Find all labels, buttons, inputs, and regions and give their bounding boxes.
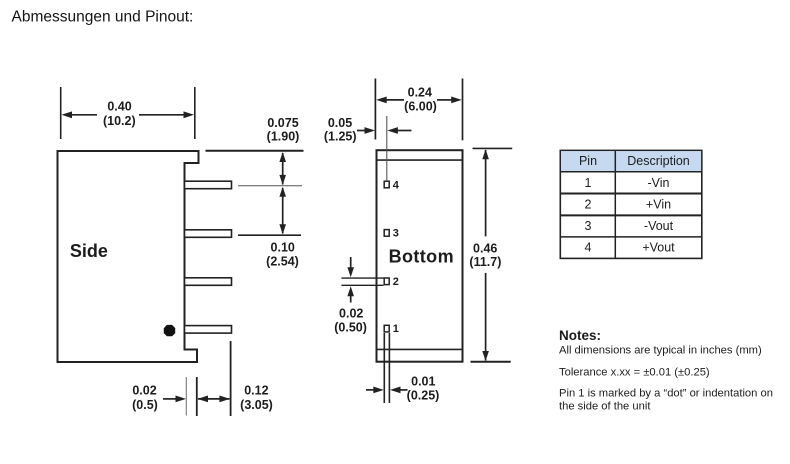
dim 0.46 top extension line — [473, 147, 513, 149]
svg-text:3: 3 — [585, 219, 592, 233]
svg-text:0.40: 0.40 — [107, 100, 131, 114]
svg-text:2: 2 — [585, 197, 592, 211]
svg-text:Pin 1 is marked by a “dot” or: Pin 1 is marked by a “dot” or indentatio… — [559, 388, 773, 400]
dim 0.05 right-pointing arrow — [357, 127, 375, 134]
dim 0.02 up arrow (bottom view) — [347, 286, 354, 302]
pad 1 left edge extension line — [383, 333, 385, 403]
pin 2 (side) — [185, 278, 232, 286]
pin table row line 2 — [560, 214, 702, 216]
extension line pin root (bottom of side view) — [185, 377, 187, 416]
pin table column divider — [614, 150, 616, 258]
svg-text:the side of the unit: the side of the unit — [559, 400, 651, 412]
svg-text:4: 4 — [585, 240, 592, 254]
pad 1 — [384, 325, 389, 332]
svg-text:0.075: 0.075 — [267, 116, 298, 130]
pin 3 (side) — [185, 230, 232, 238]
svg-text:All dimensions are typical in: All dimensions are typical in inches (mm… — [559, 344, 762, 356]
svg-text:-Vin: -Vin — [647, 176, 669, 190]
dim 0.01 left arrow — [366, 387, 384, 394]
svg-text:0.01: 0.01 — [411, 374, 435, 388]
svg-text:(2.54): (2.54) — [266, 254, 299, 268]
pad 2 leader line bottom — [341, 284, 383, 286]
dim 0.24 right extension line — [462, 79, 464, 141]
svg-text:(0.50): (0.50) — [334, 320, 367, 334]
pad 4 — [384, 181, 389, 188]
svg-text:Pin: Pin — [579, 154, 597, 168]
svg-text:1: 1 — [393, 323, 399, 335]
svg-text:(11.7): (11.7) — [469, 255, 501, 269]
svg-text:0.46: 0.46 — [473, 241, 497, 255]
pin 1 (side) — [185, 326, 232, 334]
svg-text:Tolerance x.xx = ±0.01 (±0.25): Tolerance x.xx = ±0.01 (±0.25) — [559, 366, 710, 378]
pad 3 — [384, 230, 389, 237]
svg-text:0.02: 0.02 — [132, 383, 156, 397]
side view body — [58, 151, 199, 362]
svg-text:(10.2): (10.2) — [103, 114, 136, 128]
svg-text:Abmessungen und Pinout:: Abmessungen und Pinout: — [12, 9, 194, 26]
svg-text:4: 4 — [393, 179, 400, 191]
svg-text:+Vout: +Vout — [642, 240, 675, 254]
pin table row line 1 — [560, 193, 702, 195]
svg-text:(1.90): (1.90) — [267, 130, 300, 144]
dim 0.10 arrow — [279, 187, 286, 234]
dim 0.075 arrow — [279, 152, 286, 185]
svg-text:(3.05): (3.05) — [240, 398, 273, 412]
svg-text:0.12: 0.12 — [244, 383, 268, 397]
dim 0.46 bottom extension line — [471, 361, 511, 363]
svg-text:1: 1 — [585, 176, 592, 190]
svg-text:Side: Side — [70, 241, 108, 261]
svg-text:(0.5): (0.5) — [132, 398, 158, 412]
svg-text:0.10: 0.10 — [271, 240, 295, 254]
pin 4 (side) — [185, 181, 232, 189]
svg-text:(1.25): (1.25) — [324, 130, 357, 144]
svg-text:2: 2 — [393, 276, 399, 288]
dim 0.05 left-pointing arrow — [387, 127, 411, 134]
pin column extension line — [386, 116, 388, 181]
svg-text:0.24: 0.24 — [408, 86, 432, 100]
dim 0.24 arrow — [376, 97, 462, 104]
dim 0.12 arrow — [198, 396, 230, 403]
dim 0.46 arrow — [482, 149, 489, 361]
svg-text:Description: Description — [627, 154, 690, 168]
pad 2 — [384, 278, 389, 285]
dim 0.40 left extension line — [60, 87, 62, 139]
pin table header underline — [560, 171, 702, 173]
extension line body step — [196, 377, 198, 416]
bottom view top band line — [377, 159, 462, 161]
dim 0.01 right arrow — [390, 387, 408, 394]
pin 4 extension line — [238, 185, 302, 187]
svg-text:3: 3 — [393, 228, 399, 240]
dim 0.24 left extension line — [374, 79, 376, 140]
pin table row line 3 — [560, 236, 702, 238]
extension line pin tip — [230, 341, 232, 416]
pin table header fill — [561, 151, 701, 171]
bottom view body — [377, 150, 463, 362]
dim 0.02 down arrow (bottom view) — [347, 257, 354, 277]
svg-text:(0.25): (0.25) — [407, 389, 440, 403]
bottom view bottom band line — [377, 348, 462, 350]
svg-text:(6.00): (6.00) — [404, 99, 437, 113]
pin 3 extension line — [238, 234, 301, 236]
dim 0.40 arrow line — [62, 111, 195, 118]
svg-text:Notes:: Notes: — [559, 328, 601, 343]
svg-text:0.05: 0.05 — [328, 116, 352, 130]
top surface extension line — [206, 150, 304, 152]
svg-text:0.02: 0.02 — [339, 306, 363, 320]
pin table outer border — [560, 150, 702, 258]
pin 1 dot marker — [164, 325, 175, 336]
pad 2 leader line top — [341, 277, 383, 279]
svg-text:Bottom: Bottom — [389, 246, 454, 266]
svg-text:+Vin: +Vin — [646, 197, 671, 211]
svg-text:-Vout: -Vout — [644, 219, 674, 233]
pad 1 right edge extension line — [388, 333, 390, 403]
dim 0.02 arrow (side bottom) — [163, 396, 186, 403]
dim 0.40 right extension line — [194, 87, 196, 139]
